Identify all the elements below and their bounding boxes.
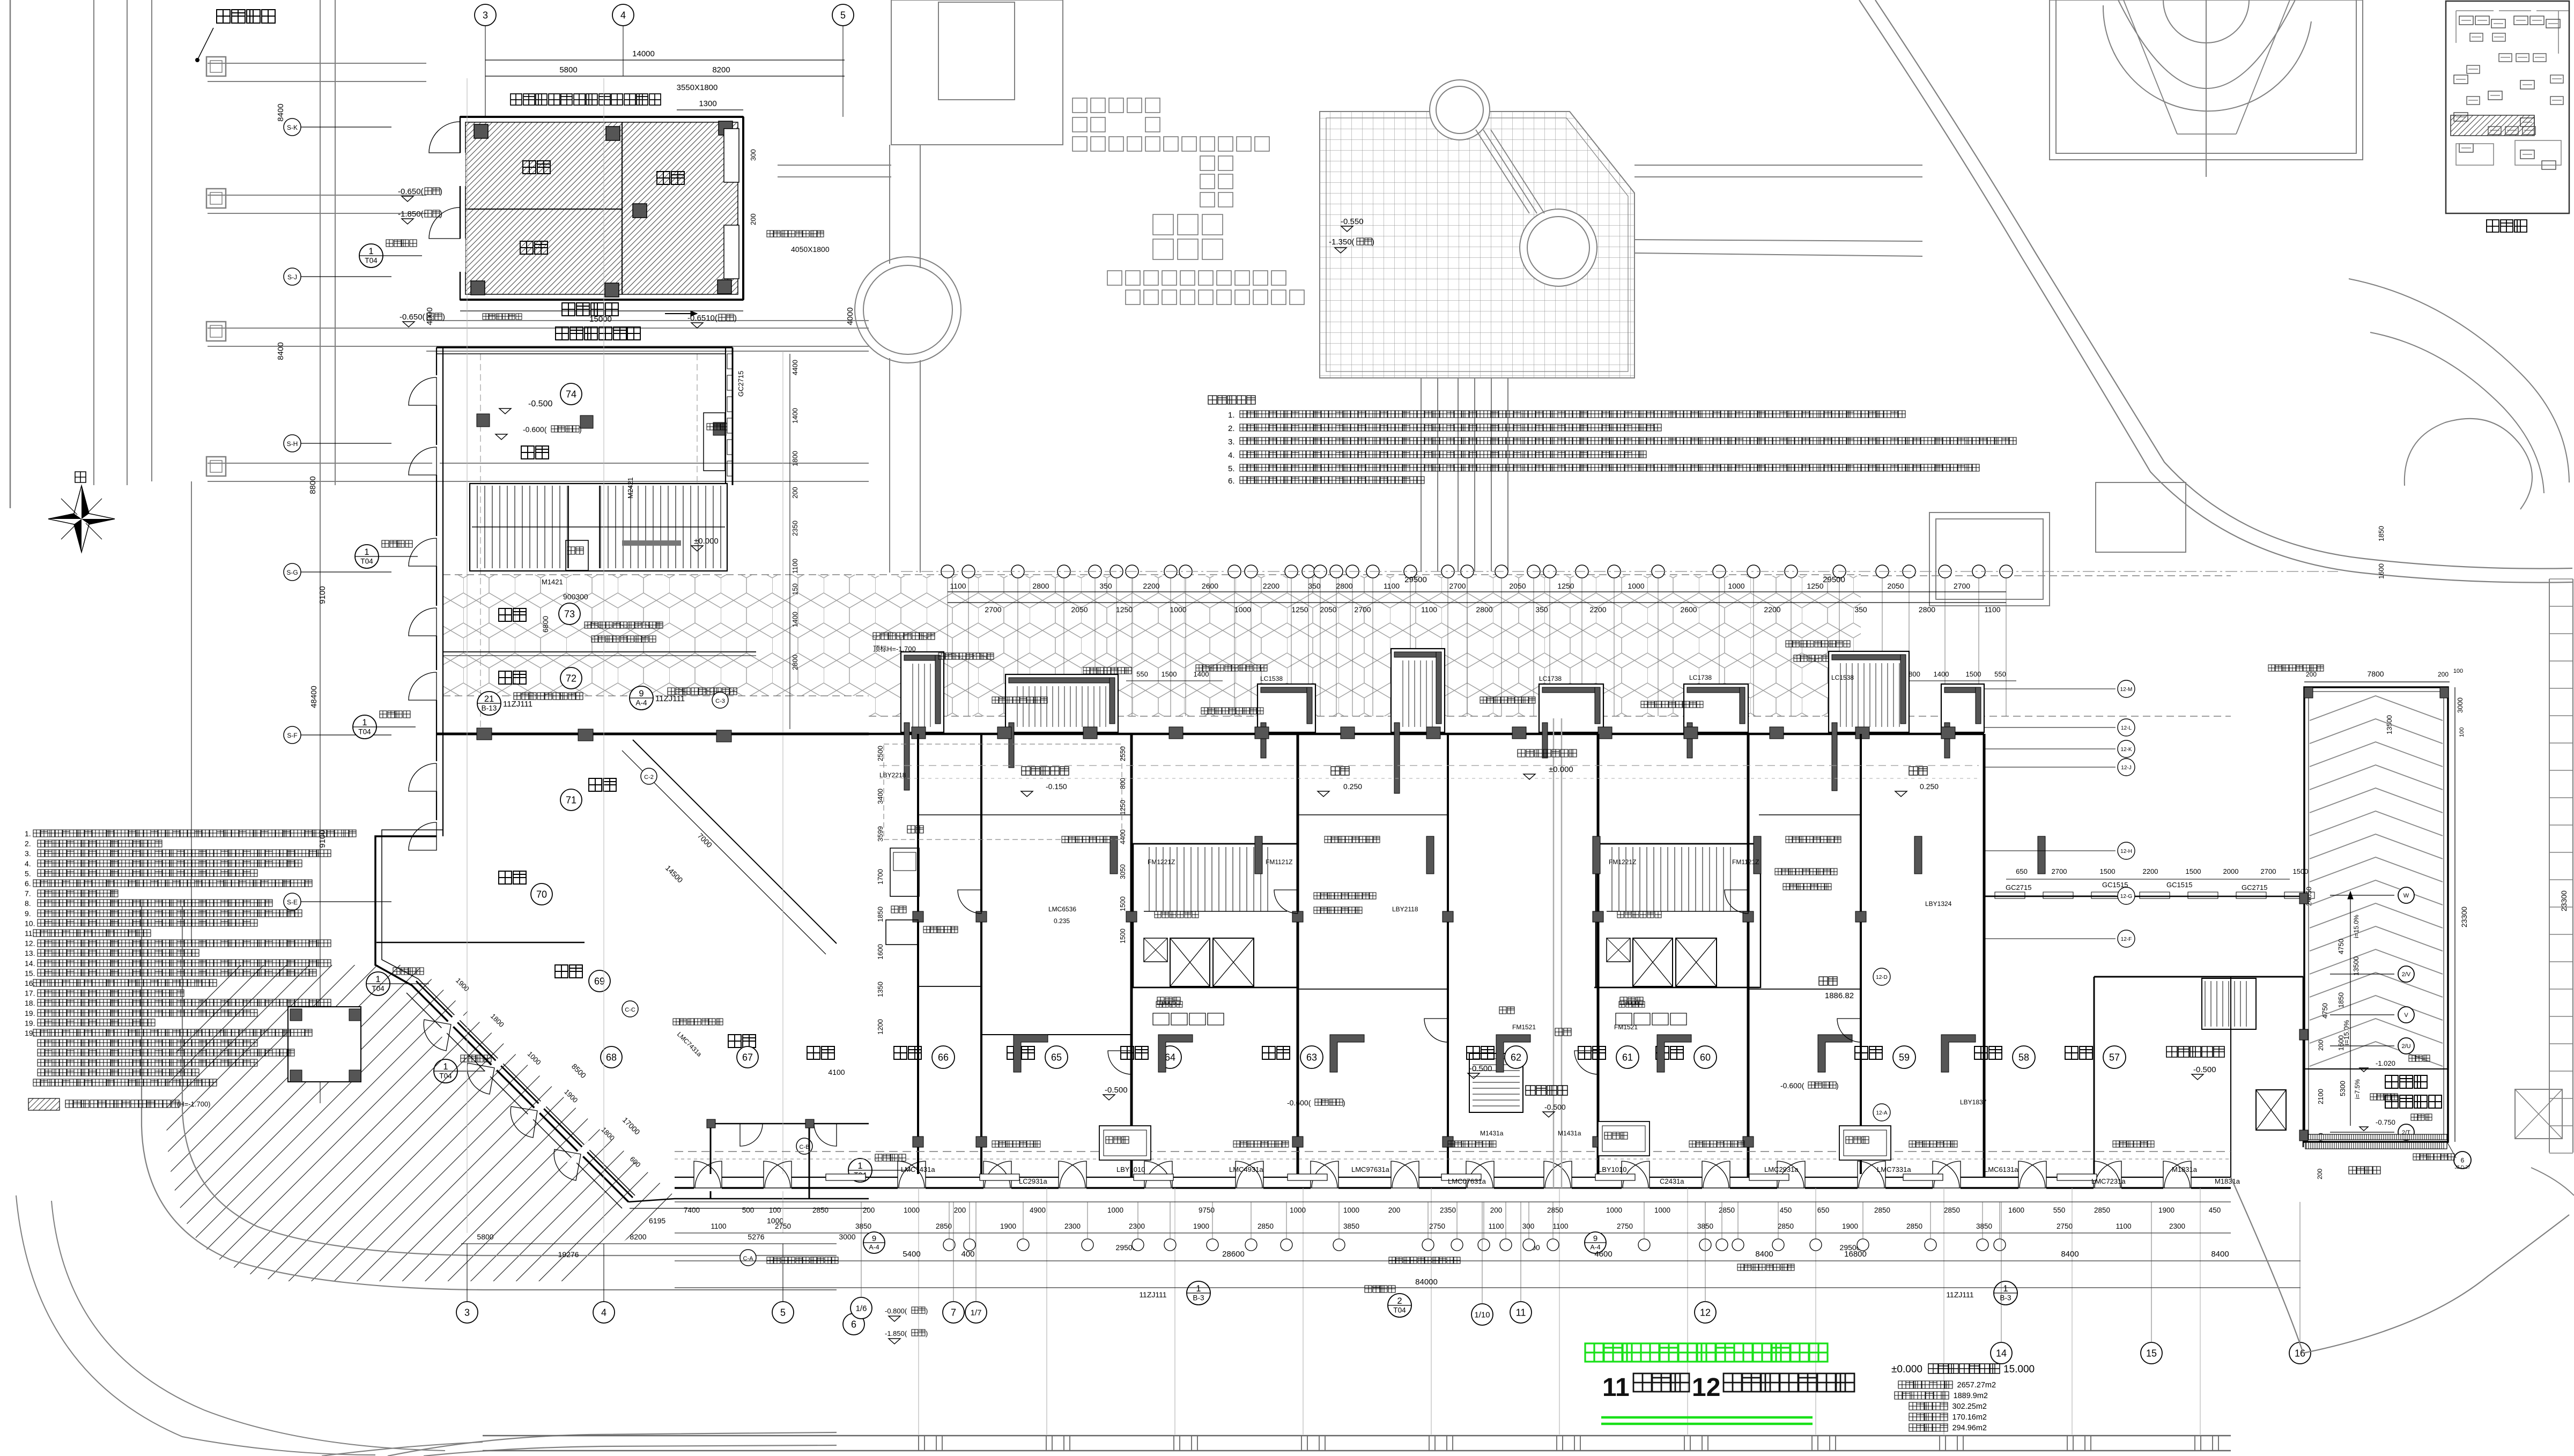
svg-text:-1.350(: -1.350(	[1329, 237, 1355, 247]
svg-text:1250: 1250	[1291, 605, 1308, 614]
svg-text:LMC4931a: LMC4931a	[1229, 1165, 1263, 1173]
svg-text:2700: 2700	[1354, 605, 1371, 614]
svg-text:1500: 1500	[2100, 867, 2116, 875]
svg-text:2800: 2800	[791, 655, 799, 670]
svg-text:1600: 1600	[2377, 563, 2385, 579]
svg-text:21: 21	[484, 694, 494, 704]
svg-text:16800: 16800	[1844, 1250, 1867, 1259]
svg-text:19276: 19276	[558, 1250, 579, 1259]
svg-text:-0.500: -0.500	[1544, 1103, 1566, 1111]
svg-text:11: 11	[1602, 1373, 1630, 1402]
svg-text:0.235: 0.235	[1054, 917, 1070, 925]
svg-text:-0.600(: -0.600(	[1780, 1081, 1804, 1090]
svg-text:9: 9	[639, 689, 643, 699]
svg-text:1: 1	[364, 547, 369, 557]
svg-text:LC1538: LC1538	[1260, 675, 1283, 682]
svg-text:6800: 6800	[541, 616, 550, 633]
svg-text:59: 59	[1899, 1052, 1910, 1063]
svg-text:2850: 2850	[1778, 1222, 1794, 1230]
svg-text:6195: 6195	[649, 1216, 665, 1225]
svg-text:8400: 8400	[2211, 1250, 2229, 1259]
svg-text:11ZJ111: 11ZJ111	[1946, 1290, 1974, 1299]
svg-text:2850: 2850	[1874, 1206, 1890, 1214]
svg-text:23300: 23300	[2460, 907, 2468, 927]
svg-text:1900: 1900	[1842, 1222, 1858, 1230]
svg-text:3.: 3.	[25, 849, 31, 858]
svg-text:350: 350	[1854, 605, 1867, 614]
svg-text:4: 4	[620, 10, 626, 20]
svg-text:100: 100	[769, 1206, 781, 1214]
svg-text:-1.850(: -1.850(	[885, 1329, 907, 1338]
svg-text:2000: 2000	[2223, 867, 2239, 875]
svg-text:8200: 8200	[630, 1232, 646, 1241]
svg-text:1/7: 1/7	[971, 1308, 982, 1317]
svg-text:T04: T04	[1393, 1306, 1406, 1314]
svg-text:28600: 28600	[1222, 1250, 1245, 1259]
svg-text:V: V	[2404, 1012, 2408, 1019]
svg-text:4.: 4.	[1228, 451, 1235, 460]
svg-text:3599: 3599	[876, 826, 884, 842]
svg-text:650: 650	[2016, 867, 2028, 875]
svg-text:LBY1837: LBY1837	[1960, 1098, 1987, 1106]
svg-text:±0.000: ±0.000	[1891, 1364, 1922, 1375]
svg-text:S-K: S-K	[287, 124, 298, 131]
svg-text:65: 65	[1051, 1052, 1062, 1063]
svg-text:5: 5	[780, 1307, 786, 1318]
svg-text:GC2715: GC2715	[737, 371, 745, 397]
svg-text:8200: 8200	[712, 65, 730, 75]
svg-text:12-F: 12-F	[2121, 937, 2132, 942]
svg-text:1100: 1100	[1421, 605, 1437, 614]
svg-text:LMC6536: LMC6536	[1048, 905, 1076, 913]
svg-text:1850: 1850	[2337, 992, 2345, 1008]
svg-text:2600: 2600	[1680, 605, 1697, 614]
svg-text:-0.650(: -0.650(	[398, 187, 424, 196]
svg-text:2800: 2800	[1032, 582, 1049, 590]
svg-text:8.: 8.	[25, 899, 31, 908]
svg-text:): )	[579, 425, 582, 434]
svg-text:200: 200	[1388, 1206, 1401, 1214]
svg-text:2200: 2200	[1589, 605, 1606, 614]
svg-text:-0.500: -0.500	[2193, 1065, 2216, 1074]
svg-text:200: 200	[2438, 671, 2449, 678]
svg-text:15: 15	[2146, 1348, 2157, 1358]
svg-text:-0.500: -0.500	[528, 399, 552, 408]
svg-text:1000: 1000	[1234, 605, 1251, 614]
svg-text:61: 61	[1622, 1052, 1633, 1063]
svg-text:350: 350	[1535, 605, 1548, 614]
svg-text:200: 200	[791, 487, 799, 499]
svg-text:1: 1	[1196, 1284, 1201, 1294]
svg-text:12-L: 12-L	[2121, 725, 2132, 731]
svg-text:5276: 5276	[748, 1232, 764, 1241]
svg-text:): )	[926, 1329, 928, 1338]
svg-text:5800: 5800	[477, 1232, 493, 1241]
svg-text:9750: 9750	[1199, 1206, 1215, 1214]
svg-text:LMC2931a: LMC2931a	[1764, 1165, 1799, 1173]
svg-text:1000: 1000	[1290, 1206, 1306, 1214]
svg-text:29500: 29500	[1404, 575, 1427, 584]
svg-text:15.: 15.	[25, 969, 35, 977]
svg-text:350: 350	[1099, 582, 1112, 590]
svg-text:GC2715: GC2715	[2006, 883, 2031, 892]
svg-text:12-J: 12-J	[2121, 765, 2131, 771]
svg-text:650: 650	[1817, 1206, 1830, 1214]
svg-text:M1831a: M1831a	[2215, 1177, 2240, 1185]
svg-text:1000: 1000	[1728, 582, 1744, 590]
svg-text:4050X1800: 4050X1800	[791, 245, 830, 254]
svg-text:74: 74	[566, 389, 576, 399]
svg-text:2700: 2700	[1449, 582, 1466, 590]
svg-text:-0.800(: -0.800(	[885, 1307, 907, 1315]
svg-text:1: 1	[2003, 1284, 2008, 1294]
svg-text:60: 60	[1700, 1052, 1711, 1063]
svg-text:1400: 1400	[1194, 670, 1209, 678]
svg-text:550: 550	[1136, 670, 1148, 678]
svg-text:12-A: 12-A	[1876, 1110, 1887, 1116]
svg-text:S-E: S-E	[287, 898, 298, 906]
svg-text:450: 450	[1780, 1206, 1792, 1214]
svg-text:-0.600(: -0.600(	[1287, 1098, 1311, 1107]
svg-text:-0.750: -0.750	[2376, 1118, 2395, 1126]
svg-text:T04: T04	[358, 728, 371, 736]
svg-text:0.250: 0.250	[1920, 782, 1939, 791]
svg-text:-0.600(: -0.600(	[523, 425, 547, 434]
svg-text:2550: 2550	[1119, 746, 1127, 761]
svg-text:800: 800	[1909, 670, 1920, 678]
svg-text:1300: 1300	[699, 99, 716, 108]
svg-text:M2421: M2421	[626, 477, 634, 499]
svg-text:LMC97631a: LMC97631a	[1351, 1165, 1390, 1173]
svg-text:13.: 13.	[25, 949, 35, 957]
svg-text:2700: 2700	[1954, 582, 1970, 590]
svg-text:6: 6	[2461, 1156, 2465, 1164]
svg-text:57: 57	[2109, 1052, 2120, 1063]
svg-text:2850: 2850	[1906, 1222, 1922, 1230]
svg-text:C2431a: C2431a	[1660, 1177, 1684, 1185]
svg-text:550: 550	[1994, 670, 2006, 678]
svg-text:): )	[1836, 1081, 1839, 1090]
svg-text:(H=-1.700): (H=-1.700)	[177, 1100, 211, 1108]
svg-text:1: 1	[362, 718, 367, 727]
svg-text:72: 72	[566, 673, 576, 684]
svg-text:FM1221Z: FM1221Z	[1609, 858, 1636, 866]
svg-text:FM1221Z: FM1221Z	[1148, 858, 1175, 866]
svg-text:LC2931a: LC2931a	[1019, 1177, 1048, 1185]
svg-text:8400: 8400	[1755, 1250, 1773, 1259]
svg-text:14000: 14000	[632, 49, 655, 58]
svg-text:1000: 1000	[1628, 582, 1644, 590]
svg-text:2050: 2050	[1320, 605, 1336, 614]
svg-text:48400: 48400	[309, 686, 319, 708]
svg-text:300: 300	[1522, 1222, 1535, 1230]
svg-text:1350: 1350	[876, 982, 884, 997]
svg-text:B-13: B-13	[482, 704, 497, 712]
svg-text:70: 70	[536, 889, 547, 900]
svg-text:7: 7	[951, 1307, 956, 1318]
svg-text:1100: 1100	[791, 559, 799, 574]
svg-text:2050: 2050	[1887, 582, 1904, 590]
svg-text:1900: 1900	[1193, 1222, 1209, 1230]
svg-text:2750: 2750	[775, 1222, 791, 1230]
svg-text:2700: 2700	[2052, 867, 2067, 875]
svg-text:2.: 2.	[1228, 424, 1235, 433]
svg-text:M1421: M1421	[542, 578, 563, 586]
svg-text:9: 9	[1593, 1234, 1597, 1243]
svg-text:M1831a: M1831a	[2172, 1165, 2198, 1173]
svg-text:3: 3	[483, 10, 488, 20]
svg-text:GC1515: GC1515	[2166, 881, 2192, 889]
svg-text:1500: 1500	[1119, 896, 1127, 911]
svg-text:LBY1010: LBY1010	[1116, 1165, 1145, 1173]
svg-text:LMC7431a: LMC7431a	[901, 1165, 935, 1173]
svg-text:C-C: C-C	[625, 1007, 635, 1013]
svg-text:i=15.0%: i=15.0%	[2353, 915, 2360, 938]
svg-text:1/6: 1/6	[856, 1304, 867, 1313]
svg-text:2657.27m2: 2657.27m2	[1957, 1381, 1996, 1390]
svg-text:12: 12	[1692, 1373, 1720, 1402]
svg-text:5400: 5400	[903, 1250, 920, 1259]
svg-text:2850: 2850	[812, 1206, 829, 1214]
svg-text:11ZJ111: 11ZJ111	[1139, 1290, 1167, 1299]
svg-text:6.: 6.	[25, 879, 31, 888]
svg-text:FM1521: FM1521	[1512, 1023, 1536, 1031]
svg-text:4000: 4000	[425, 307, 434, 325]
svg-text:8400: 8400	[2061, 1250, 2079, 1259]
svg-text:1100: 1100	[1384, 582, 1400, 590]
svg-text:1400: 1400	[1934, 670, 1949, 678]
svg-text:): )	[442, 313, 445, 322]
svg-text:200: 200	[1490, 1206, 1503, 1214]
svg-text:1000: 1000	[904, 1206, 920, 1214]
svg-text:1400: 1400	[791, 612, 799, 627]
svg-text:1100: 1100	[1552, 1222, 1568, 1230]
svg-text:9: 9	[872, 1234, 876, 1243]
svg-text:1200: 1200	[876, 1019, 884, 1035]
svg-text:6.: 6.	[1228, 477, 1235, 486]
svg-text:-1.020: -1.020	[2376, 1059, 2395, 1067]
svg-text:69: 69	[594, 976, 605, 986]
svg-text:1250: 1250	[1807, 582, 1823, 590]
svg-text:3000: 3000	[839, 1232, 855, 1241]
svg-text:FM1121Z: FM1121Z	[1266, 858, 1292, 866]
svg-text:±0.000: ±0.000	[694, 537, 719, 546]
svg-text:1000: 1000	[1606, 1206, 1622, 1214]
svg-text:2800: 2800	[1336, 582, 1352, 590]
svg-text:73: 73	[564, 608, 575, 619]
svg-text:C-B: C-B	[800, 1144, 810, 1150]
svg-text:2800: 2800	[1476, 605, 1492, 614]
svg-text:3850: 3850	[855, 1222, 871, 1230]
svg-text:2050: 2050	[1071, 605, 1088, 614]
svg-text:2200: 2200	[1764, 605, 1780, 614]
svg-text:1100: 1100	[950, 582, 966, 590]
svg-text:2850: 2850	[2094, 1206, 2110, 1214]
svg-text:LBY1010: LBY1010	[1598, 1165, 1627, 1173]
svg-text:3850: 3850	[1343, 1222, 1359, 1230]
svg-text:67: 67	[742, 1052, 753, 1063]
svg-text:302.25m2: 302.25m2	[1952, 1402, 1987, 1411]
svg-text:3050: 3050	[1119, 864, 1127, 879]
svg-text:4: 4	[601, 1307, 606, 1318]
svg-text:1800: 1800	[791, 451, 799, 466]
svg-text:2200: 2200	[1263, 582, 1279, 590]
svg-text:2700: 2700	[985, 605, 1001, 614]
svg-text:5: 5	[840, 10, 846, 20]
svg-text:2850: 2850	[1258, 1222, 1274, 1230]
svg-text:2: 2	[1397, 1296, 1402, 1306]
svg-text:10.: 10.	[25, 919, 35, 927]
svg-text:200: 200	[2317, 1040, 2325, 1051]
svg-text:1889.9m2: 1889.9m2	[1954, 1392, 1988, 1400]
svg-text:1500: 1500	[2293, 867, 2309, 875]
svg-text:66: 66	[938, 1052, 949, 1063]
svg-text:1100: 1100	[711, 1222, 726, 1230]
svg-text:12-K: 12-K	[2120, 747, 2132, 753]
svg-text:68: 68	[606, 1052, 617, 1063]
svg-text:1100: 1100	[1984, 605, 2000, 614]
svg-text:-0.6510(: -0.6510(	[687, 314, 718, 323]
svg-text:14: 14	[1996, 1348, 2007, 1358]
svg-text:S-H: S-H	[287, 440, 298, 448]
svg-text:9.: 9.	[25, 909, 31, 918]
svg-text:S-F: S-F	[287, 732, 297, 739]
svg-text:FM1521: FM1521	[1614, 1023, 1638, 1031]
svg-text:1000: 1000	[1170, 605, 1186, 614]
svg-text:450: 450	[2209, 1206, 2221, 1214]
svg-text:FM1121Z: FM1121Z	[1732, 858, 1759, 866]
svg-text:2050: 2050	[1509, 582, 1526, 590]
svg-text:11ZJ111: 11ZJ111	[655, 694, 685, 703]
svg-text:3.: 3.	[1228, 437, 1235, 447]
svg-text:LBY1324: LBY1324	[1925, 900, 1952, 908]
svg-text:1250: 1250	[1557, 582, 1574, 590]
svg-text:1100: 1100	[1488, 1222, 1504, 1230]
svg-text:2850: 2850	[1944, 1206, 1960, 1214]
svg-text:6: 6	[851, 1319, 856, 1329]
svg-text:±0.000: ±0.000	[1549, 765, 1573, 774]
svg-text:2300: 2300	[1129, 1222, 1145, 1230]
svg-text:-0.500: -0.500	[1105, 1086, 1128, 1095]
svg-text:4.: 4.	[25, 859, 31, 868]
svg-text:i=7.5%: i=7.5%	[2354, 1079, 2361, 1099]
svg-text:M1431a: M1431a	[1558, 1130, 1581, 1137]
svg-text:500: 500	[742, 1206, 755, 1214]
svg-text:4600: 4600	[1594, 1250, 1612, 1259]
svg-text:9100: 9100	[318, 586, 327, 604]
svg-text:150: 150	[791, 583, 799, 595]
svg-text:-0.650(: -0.650(	[400, 313, 425, 322]
svg-text:1700: 1700	[876, 869, 884, 885]
svg-text:LC1738: LC1738	[1539, 675, 1562, 682]
svg-text:19.: 19.	[25, 1019, 35, 1027]
svg-text:-0.550: -0.550	[1341, 217, 1364, 226]
svg-text:8400: 8400	[276, 103, 285, 121]
svg-text:3850: 3850	[1976, 1222, 1992, 1230]
svg-text:1600: 1600	[2337, 1035, 2345, 1051]
svg-text:1500: 1500	[1119, 928, 1127, 944]
svg-text:S-J: S-J	[287, 273, 297, 281]
svg-text:1900: 1900	[1000, 1222, 1016, 1230]
svg-text:100: 100	[2453, 668, 2463, 674]
svg-text:71: 71	[566, 794, 576, 805]
svg-text:2750: 2750	[2057, 1222, 2073, 1230]
svg-text:12-D: 12-D	[1876, 975, 1888, 980]
svg-text:1.: 1.	[25, 829, 31, 838]
svg-text:): )	[1343, 1098, 1345, 1107]
svg-text:LMC7231a: LMC7231a	[2091, 1177, 2126, 1185]
svg-text:LBY2118: LBY2118	[1392, 905, 1418, 913]
svg-text:2500: 2500	[876, 746, 884, 761]
svg-text:GC1515: GC1515	[2102, 881, 2128, 889]
svg-text:1500: 1500	[1162, 670, 1177, 678]
svg-text:C-3: C-3	[715, 698, 725, 704]
svg-text:3: 3	[464, 1307, 470, 1318]
svg-text:1: 1	[857, 1161, 862, 1171]
svg-text:W: W	[2403, 893, 2409, 899]
svg-text:19.: 19.	[25, 1009, 35, 1017]
svg-text:2300: 2300	[1064, 1222, 1081, 1230]
svg-text:4100: 4100	[828, 1068, 845, 1076]
svg-text:4900: 4900	[1030, 1206, 1046, 1214]
svg-text:2300: 2300	[2169, 1222, 2185, 1230]
svg-text:2200: 2200	[2143, 867, 2158, 875]
svg-text:62: 62	[1511, 1052, 1521, 1063]
svg-text:): )	[926, 1307, 928, 1315]
svg-text:350: 350	[1308, 582, 1321, 590]
svg-text:1600: 1600	[876, 944, 884, 960]
svg-text:LC1538: LC1538	[1831, 674, 1854, 681]
svg-text:1250: 1250	[1116, 605, 1133, 614]
svg-text:LC1738: LC1738	[1689, 674, 1712, 681]
svg-text:2350: 2350	[1440, 1206, 1456, 1214]
svg-text:1600: 1600	[2008, 1206, 2024, 1214]
svg-text:1400: 1400	[791, 408, 799, 424]
svg-text:2/V: 2/V	[2402, 971, 2411, 978]
svg-text:A-4: A-4	[635, 699, 647, 707]
svg-text:5.: 5.	[25, 869, 31, 878]
svg-text:7400: 7400	[684, 1206, 700, 1214]
svg-text:): )	[734, 314, 737, 323]
svg-text:): )	[1372, 237, 1374, 247]
svg-text:B-3: B-3	[2000, 1294, 2011, 1302]
svg-text:5.: 5.	[1228, 464, 1235, 473]
svg-text:3550X1800: 3550X1800	[677, 83, 718, 92]
svg-text:LMC6131a: LMC6131a	[1984, 1165, 2018, 1173]
svg-text:200: 200	[954, 1206, 966, 1214]
svg-text:4000: 4000	[846, 307, 855, 325]
svg-text:M1431a: M1431a	[1480, 1130, 1504, 1137]
svg-text:12.: 12.	[25, 939, 35, 948]
svg-text:7800: 7800	[2367, 670, 2384, 678]
svg-text:1900: 1900	[2158, 1206, 2174, 1214]
svg-text:B-3: B-3	[1193, 1294, 1204, 1302]
svg-text:15.000: 15.000	[2003, 1364, 2035, 1375]
svg-text:550: 550	[2053, 1206, 2066, 1214]
svg-text:1000: 1000	[1107, 1206, 1123, 1214]
svg-text:2850: 2850	[1547, 1206, 1563, 1214]
svg-text:400: 400	[961, 1250, 974, 1259]
svg-text:0.250: 0.250	[1343, 782, 1362, 791]
svg-text:15000: 15000	[589, 315, 612, 324]
svg-text:LMC07631a: LMC07631a	[1448, 1177, 1486, 1185]
svg-text:): )	[440, 187, 442, 196]
svg-text:200: 200	[2306, 671, 2317, 678]
svg-text:3000: 3000	[2456, 697, 2464, 713]
svg-text:2100: 2100	[2317, 1089, 2325, 1104]
svg-text:A-4: A-4	[869, 1243, 879, 1251]
svg-text:-0.500: -0.500	[1469, 1064, 1492, 1073]
